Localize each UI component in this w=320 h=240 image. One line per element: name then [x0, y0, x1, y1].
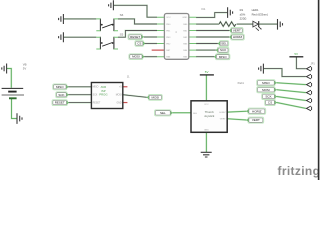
svg-text:VCC: VCC	[166, 17, 171, 19]
wire joystick GND to ground	[205, 132, 207, 152]
wire GND to S5	[64, 36, 97, 38]
svg-text:VCC: VCC	[204, 104, 209, 106]
wire IC pin 10 to SEL	[196, 43, 218, 45]
net label MOSI	[129, 54, 143, 60]
svg-text:AVR: AVR	[101, 85, 107, 89]
ground G2	[59, 32, 64, 42]
svg-text:PROG: PROG	[99, 93, 107, 97]
svg-text:VB: VB	[23, 63, 27, 67]
svg-text:RESET: RESET	[55, 101, 65, 105]
LED LED1	[253, 21, 259, 27]
wire CS to IC pin 5	[143, 43, 157, 45]
wire joystick HORZ to HORIZ	[227, 110, 246, 113]
ground at battery bottom	[17, 113, 22, 124]
wire MISO to JP1 pin 3	[277, 83, 306, 85]
wire MOSI to JP1 pin 4	[277, 90, 306, 93]
IC U1 body	[164, 14, 188, 60]
net label MOSI (header)	[257, 87, 275, 93]
svg-text:ISP: ISP	[101, 89, 106, 93]
svg-text:SCK: SCK	[93, 95, 98, 97]
svg-text:GND: GND	[204, 129, 209, 131]
svg-text:MISO: MISO	[219, 55, 227, 59]
svg-text:MISO: MISO	[56, 85, 64, 89]
wire IC pin 13 to R1	[196, 23, 219, 25]
net label SEL (joystick)	[155, 110, 171, 116]
svg-text:Red (633nm): Red (633nm)	[252, 13, 268, 17]
battery VB 3V	[2, 87, 24, 89]
label VB 3V	[23, 63, 27, 67]
svg-text:fritzing: fritzing	[278, 164, 320, 178]
wire IC pin 14 to GND	[196, 13, 227, 18]
svg-text:5V: 5V	[205, 70, 209, 74]
power 5V (joystick)	[200, 74, 214, 76]
wire SCK to JP1 pin 5	[277, 97, 306, 101]
svg-text:VERT: VERT	[252, 118, 260, 122]
label S5	[120, 32, 124, 36]
net label VERT (joystick)	[248, 117, 264, 123]
label R1 value 220 ohm 5%	[240, 8, 244, 12]
switch S6	[100, 19, 114, 32]
svg-text:MISO: MISO	[262, 81, 270, 85]
label JP1	[311, 62, 316, 65]
svg-text:3V: 3V	[23, 67, 27, 71]
svg-text:MOSI: MOSI	[262, 88, 270, 92]
wire RESET to J1	[69, 102, 92, 104]
wire S5 to IC pin 3	[118, 31, 157, 38]
resistor R1 220	[219, 22, 236, 27]
svg-text:HORZ: HORZ	[219, 112, 226, 114]
label LED1 Red 633nm	[252, 8, 259, 12]
net label MISO (IC right)	[216, 54, 230, 60]
net label SCK (IC right)	[217, 47, 228, 53]
wire battery - to GND	[12, 99, 17, 119]
wire MISO to J1	[68, 86, 91, 88]
wire GND to IC pin 1	[114, 5, 157, 17]
svg-text:SCK: SCK	[220, 48, 226, 52]
thumb joystick Part1	[191, 101, 227, 133]
svg-text:S6: S6	[120, 13, 124, 17]
wire GND to JP1 pin 2	[264, 69, 306, 77]
svg-text:Joystick: Joystick	[204, 114, 215, 118]
wire 5V to joystick VCC	[205, 75, 207, 100]
net label SEL (IC right)	[219, 41, 228, 47]
net label VERT (IC right)	[231, 28, 243, 34]
svg-text:CS: CS	[268, 101, 272, 105]
wire RESET to IC pin 4	[144, 36, 157, 38]
switch S5	[100, 37, 114, 50]
wire joystick VERT to VERT	[227, 119, 246, 120]
net label MISO (prog)	[53, 84, 67, 90]
label S6	[120, 13, 124, 17]
svg-text:SEL: SEL	[221, 42, 227, 46]
svg-text:IC1: IC1	[202, 8, 207, 11]
window edge line	[318, 0, 320, 180]
svg-text:SCK: SCK	[58, 93, 64, 97]
label IC1	[202, 8, 207, 11]
svg-text:MISO: MISO	[93, 87, 99, 89]
wire J1 MOSI to MOSI	[123, 95, 147, 98]
wire S6 to IC pin 2	[118, 19, 157, 24]
wire LED1 to GND	[259, 23, 277, 25]
net label SCK (header)	[262, 94, 275, 100]
net label RESET (prog)	[52, 100, 67, 106]
ground at battery top	[2, 64, 7, 74]
wire IC pin 12 to VERT	[196, 30, 229, 32]
net label MISO (header)	[257, 80, 275, 86]
svg-text:220Ω: 220Ω	[240, 16, 247, 20]
svg-text:RESET: RESET	[130, 35, 140, 39]
net label HORIZ (joystick)	[248, 108, 266, 114]
ratsnest wire J1 +5 unrouted	[123, 86, 128, 88]
svg-text:GND: GND	[182, 17, 187, 19]
svg-text:LED1: LED1	[252, 8, 259, 12]
wire IC pin 8 to MISO	[196, 56, 214, 58]
svg-text:±5%: ±5%	[240, 12, 246, 16]
net label HORIZ (IC right)	[231, 34, 244, 40]
svg-text:MOSI: MOSI	[116, 95, 122, 97]
label J1	[127, 75, 130, 78]
svg-text:SCK: SCK	[265, 95, 271, 99]
ground G1	[59, 14, 64, 24]
wire IC pin 11 to HORIZ	[196, 36, 229, 38]
net label SCK (prog)	[56, 92, 67, 98]
ratsnest wire J1 GND unrouted	[123, 102, 128, 104]
svg-text:GND: GND	[116, 103, 121, 105]
svg-text:Thumb: Thumb	[205, 110, 214, 114]
wire IC pin 9 to SCK	[196, 49, 216, 51]
svg-text:VERT: VERT	[233, 29, 241, 33]
ground after LED	[278, 19, 283, 30]
svg-text:HORIZ: HORIZ	[252, 109, 262, 113]
wire CS to JP1 pin 6	[277, 103, 306, 109]
svg-text:5V: 5V	[294, 52, 298, 56]
ground (top, left-pointing)	[109, 0, 114, 10]
header JP1	[306, 66, 311, 111]
ground below joystick	[201, 152, 212, 157]
svg-text:SEL: SEL	[160, 111, 166, 115]
wire 5V to JP1 pin 1	[296, 57, 305, 68]
label Part1	[238, 81, 245, 85]
wire MOSI to IC pin 7	[144, 56, 157, 58]
wire GND to S6	[64, 18, 97, 20]
net label RESET	[128, 34, 142, 40]
net label MOSI (prog right)	[148, 95, 162, 101]
net label CS (header)	[265, 100, 275, 106]
svg-text:MOSI: MOSI	[132, 55, 140, 59]
IC U1 pin stubs	[157, 17, 196, 57]
svg-text:CS: CS	[137, 42, 141, 46]
wire GND to battery +	[7, 69, 11, 88]
AVR ISP programming header J1	[91, 83, 122, 109]
wire R1 to LED1	[237, 23, 253, 25]
svg-text:JP1: JP1	[311, 62, 316, 65]
svg-text:R1: R1	[240, 8, 244, 12]
wire SCK to J1	[68, 94, 91, 96]
svg-text:MOSI: MOSI	[151, 95, 159, 99]
net label CS	[135, 41, 144, 47]
wire SEL to joystick	[173, 112, 191, 114]
power 5V (header)	[289, 56, 303, 58]
ground top-right of IC	[228, 7, 233, 18]
svg-text:S5: S5	[120, 32, 124, 36]
ratsnest wire IC pin 6 unrouted	[152, 49, 165, 51]
svg-text:RESET: RESET	[93, 103, 101, 105]
ground G3 bottom-right	[259, 64, 264, 74]
svg-text:HORIZ: HORIZ	[233, 35, 243, 39]
svg-text:VERT: VERT	[220, 119, 226, 121]
